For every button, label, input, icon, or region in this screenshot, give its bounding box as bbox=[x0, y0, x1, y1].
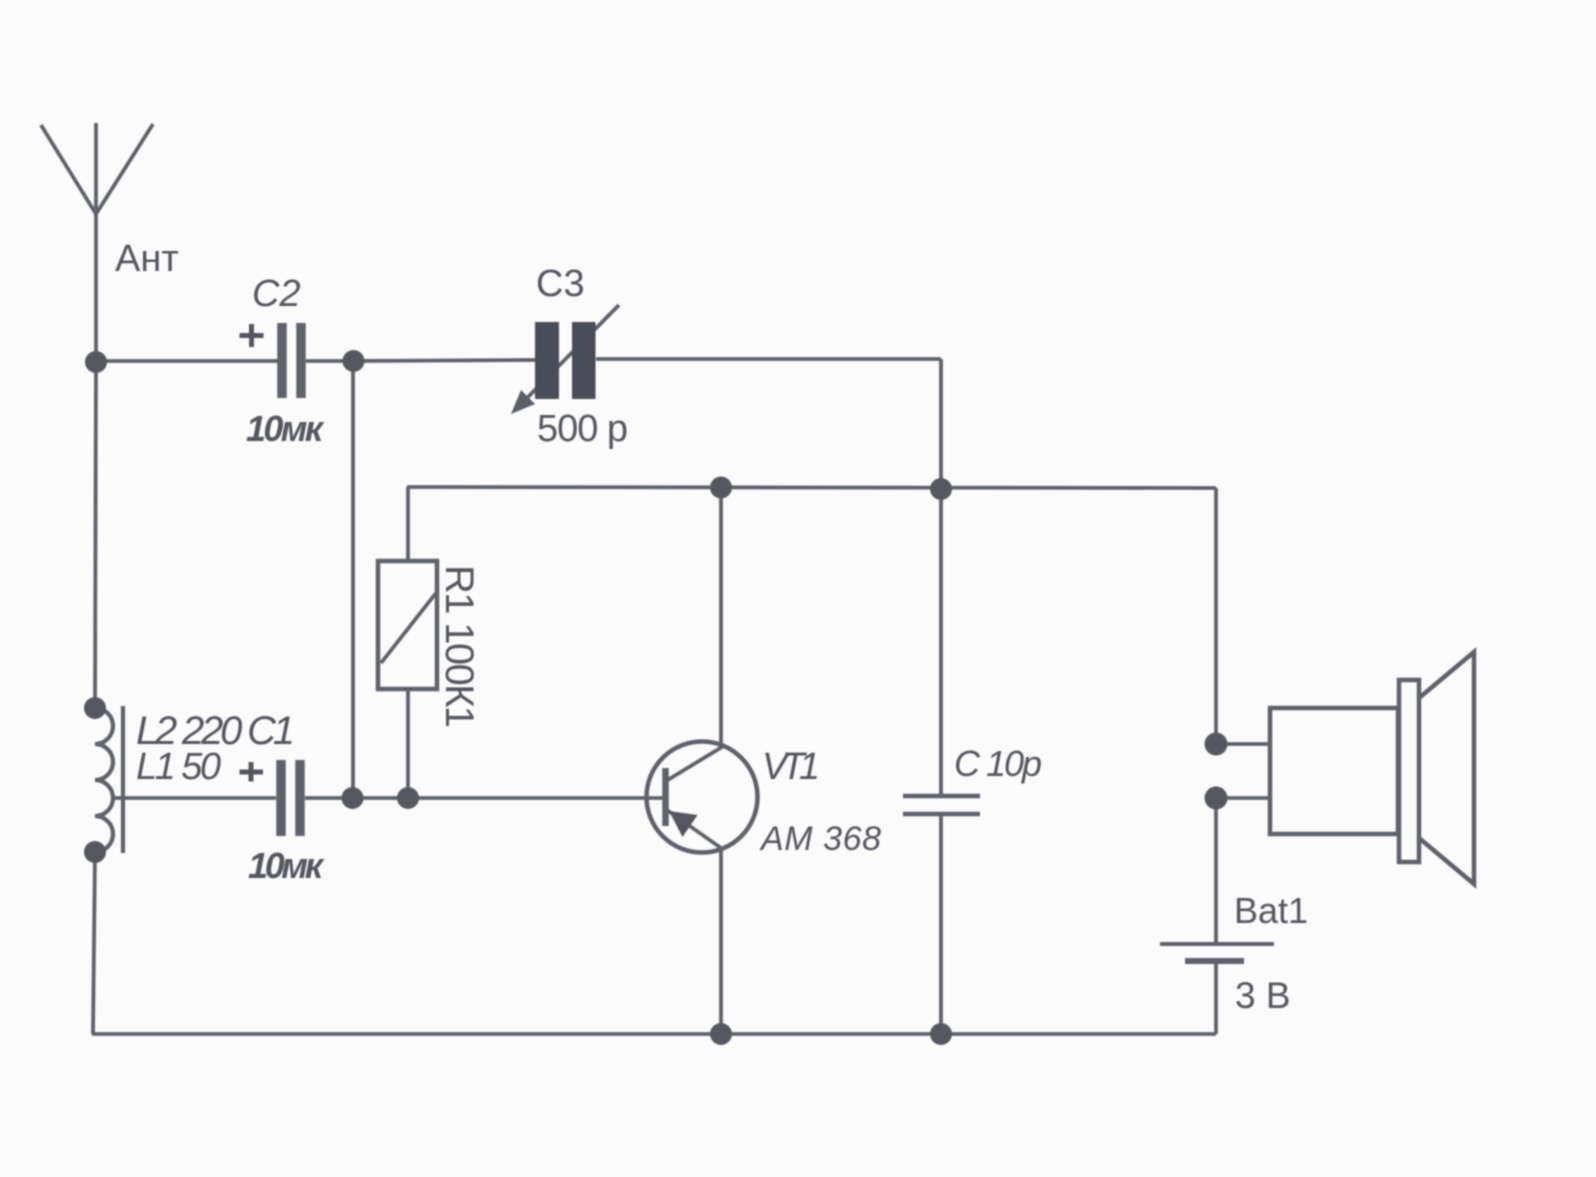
wire: corner down to collector rail bbox=[939, 359, 943, 489]
wire: C3 to top-right corner bbox=[596, 357, 941, 361]
resistor R1 body bbox=[378, 561, 437, 689]
node: coil top bbox=[84, 697, 106, 719]
antenna mast bbox=[94, 123, 98, 363]
node: speaker top terminal bbox=[1205, 733, 1228, 756]
battery Bat1 short plate bbox=[1185, 958, 1244, 964]
svg-text:10мк: 10мк bbox=[248, 845, 325, 886]
plus sign of C1 bbox=[240, 762, 264, 782]
svg-text:C 10p: C 10p bbox=[954, 743, 1042, 784]
variable capacitor C3 plate left bbox=[535, 322, 559, 399]
capacitor C2 plate left bbox=[277, 323, 287, 398]
wire: node A to C3 bbox=[353, 360, 535, 361]
capacitor C1 plate left bbox=[276, 760, 286, 836]
svg-text:VT1: VT1 bbox=[762, 746, 820, 788]
capacitor C2 plate right bbox=[296, 323, 306, 398]
node: coil bottom bbox=[84, 841, 106, 863]
wire: C1 to transistor base bbox=[305, 796, 663, 800]
node: C3 / rail junction bbox=[930, 478, 952, 500]
speaker cone bbox=[1419, 652, 1474, 884]
speaker diaphragm plate bbox=[1399, 680, 1419, 862]
svg-text:Ант: Ант bbox=[115, 238, 179, 280]
svg-text:3 В: 3 В bbox=[1235, 975, 1291, 1016]
node: antenna / top rail junction bbox=[85, 351, 107, 373]
wire: node A down to base rail bbox=[351, 361, 355, 798]
svg-text:500 p: 500 p bbox=[537, 408, 628, 450]
capacitor C1 plate right bbox=[295, 760, 305, 836]
wire: C2 to node A bbox=[306, 359, 353, 363]
wire: emitter lead down bbox=[719, 848, 723, 1034]
wire: C 10p bottom lead bbox=[939, 814, 943, 1034]
wire: speaker top terminal to box bbox=[1216, 742, 1270, 746]
node: base rail junction 1 bbox=[342, 787, 364, 809]
svg-text:C3: C3 bbox=[536, 263, 585, 305]
wire: speaker bottom terminal to box bbox=[1216, 796, 1270, 800]
transistor VT1 emitter stroke bbox=[667, 810, 721, 848]
transistor VT1 base bar bbox=[662, 768, 669, 826]
variable capacitor C3 arrow shaft bbox=[527, 305, 619, 398]
resistor R1 diagonal bbox=[381, 593, 436, 663]
wire: collector lead up bbox=[719, 487, 723, 748]
capacitor C plate top bbox=[903, 794, 980, 799]
wire: antenna junction down to coil top bbox=[95, 362, 96, 708]
node: collector rail junction bbox=[710, 477, 732, 499]
wire: base rail coil tap to C1 bbox=[112, 796, 276, 800]
antenna arm right bbox=[96, 124, 153, 214]
transistor VT1 circle bbox=[647, 742, 758, 853]
svg-text:10мк: 10мк bbox=[246, 408, 325, 449]
transistor VT1 collector stroke bbox=[666, 747, 722, 781]
speaker box bbox=[1270, 708, 1398, 834]
wire: R1 bottom lead bbox=[406, 689, 410, 798]
node A: C2 output junction bbox=[343, 350, 365, 372]
svg-text:R1 100К1: R1 100К1 bbox=[437, 565, 481, 728]
wire: antenna to C2 bbox=[96, 359, 278, 363]
ground rail bottom bbox=[92, 1032, 1216, 1036]
svg-text:L1 50: L1 50 bbox=[136, 746, 221, 788]
antenna arm left bbox=[41, 125, 96, 214]
inductor L1/L2 winding arcs bbox=[95, 708, 113, 852]
plus sign of C2 bbox=[240, 324, 264, 347]
variable capacitor C3 plate right bbox=[572, 322, 596, 399]
C3 arrow head bbox=[511, 390, 535, 414]
svg-text:C2: C2 bbox=[252, 273, 301, 315]
wire: R1 top lead bbox=[406, 487, 410, 561]
wire: coil bottom down to ground rail bbox=[93, 852, 95, 1034]
wire: rail corner down to speaker top terminal bbox=[1214, 488, 1218, 744]
battery Bat1 long plate bbox=[1160, 942, 1274, 946]
transistor emitter arrow head bbox=[669, 811, 698, 837]
wire: battery bottom lead bbox=[1214, 961, 1218, 1034]
svg-text:АМ 368: АМ 368 bbox=[759, 820, 881, 858]
node: speaker bottom terminal bbox=[1205, 787, 1228, 810]
capacitor C plate bottom bbox=[903, 812, 980, 817]
wire: C 10p top lead bbox=[939, 489, 943, 796]
node: base rail junction 2 (R1) bbox=[397, 787, 419, 809]
node: C / ground rail junction bbox=[930, 1023, 952, 1045]
inductor core line bbox=[121, 706, 125, 853]
svg-text:Bat1: Bat1 bbox=[1234, 890, 1308, 931]
wire: battery top lead bbox=[1214, 798, 1218, 944]
node: emitter / ground rail junction bbox=[710, 1023, 732, 1045]
collector rail horizontal bbox=[407, 487, 1216, 488]
